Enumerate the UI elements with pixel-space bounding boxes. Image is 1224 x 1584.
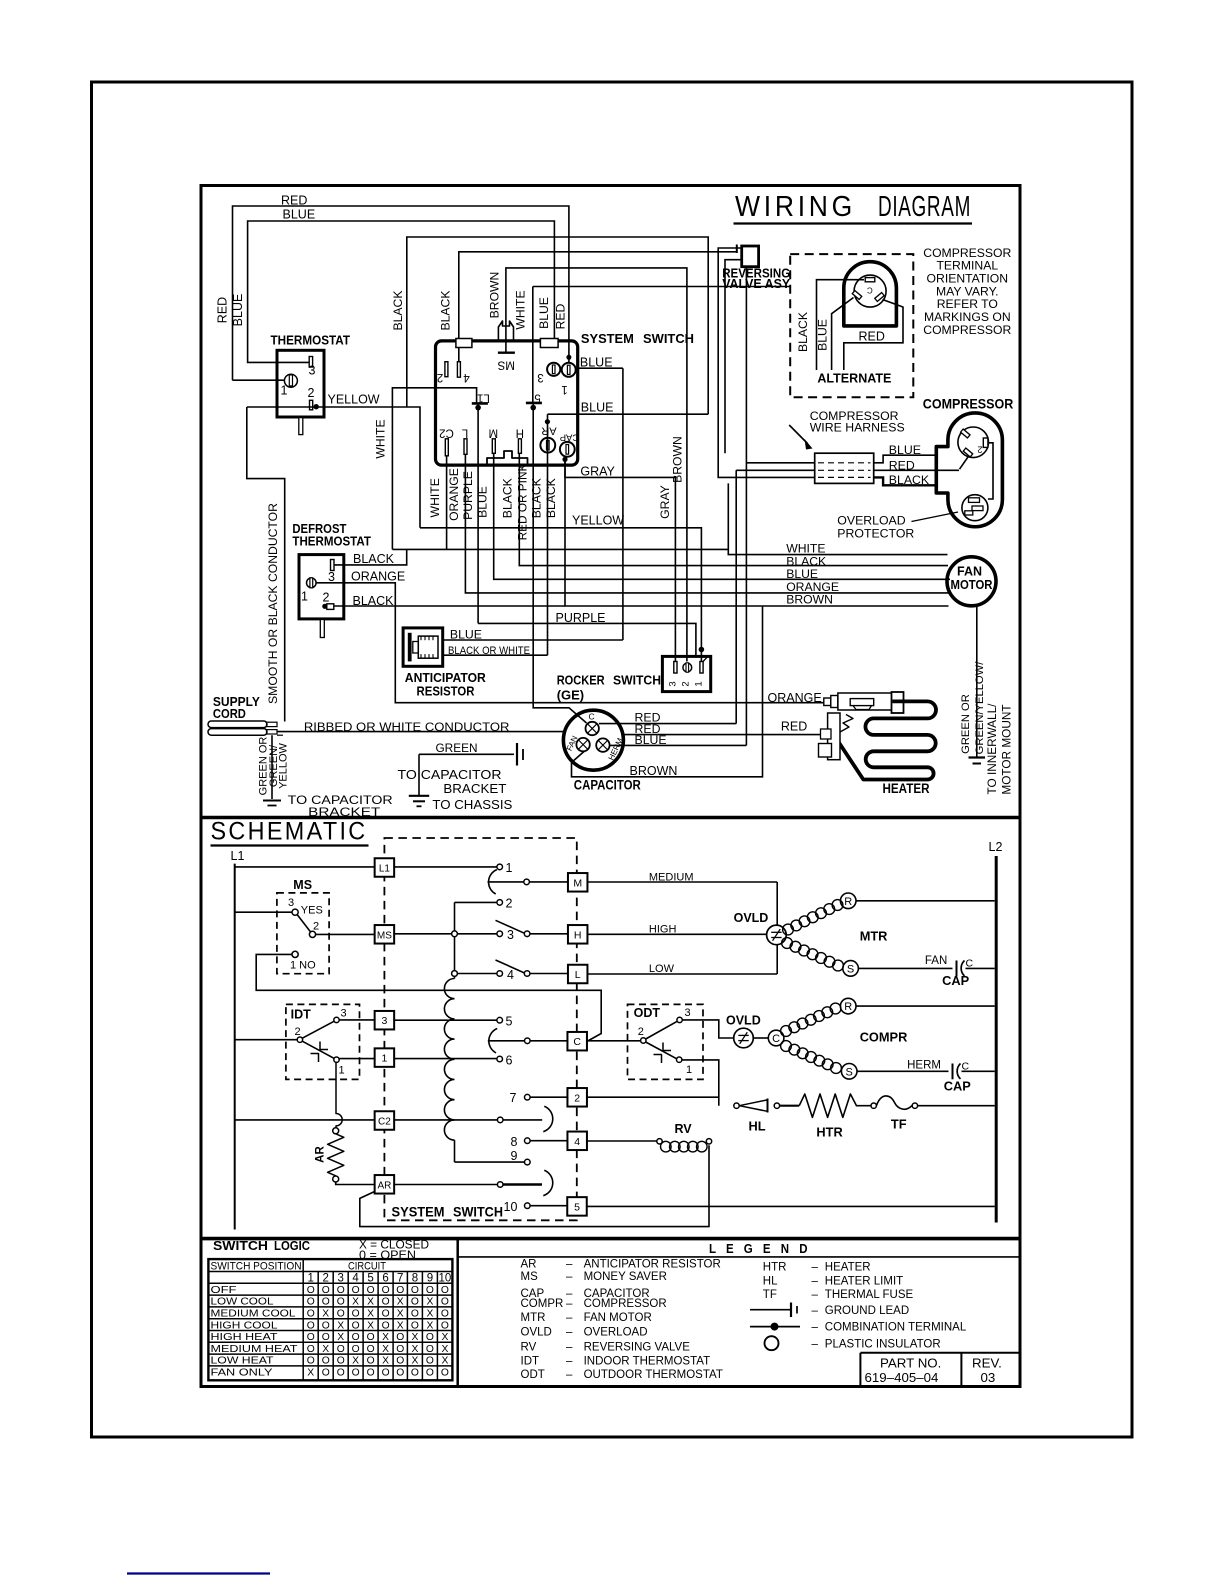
- svg-text:OUTDOOR THERMOSTAT: OUTDOOR THERMOSTAT: [584, 1369, 723, 1381]
- svg-text:3: 3: [668, 681, 679, 686]
- defrost ORANGE wire to heater: [316, 583, 824, 703]
- overload circle: [962, 495, 988, 521]
- svg-text:HL: HL: [749, 1119, 766, 1134]
- svg-text:MEDIUM: MEDIUM: [649, 871, 694, 883]
- svg-text:O: O: [352, 1309, 360, 1320]
- svg-text:HERM: HERM: [907, 1059, 941, 1071]
- svg-text:HL: HL: [763, 1276, 778, 1288]
- svg-text:O: O: [322, 1356, 330, 1367]
- svg-text:X: X: [411, 1356, 418, 1367]
- wire smooth/black conductor: [247, 407, 285, 722]
- wire BLACK to tab1: [459, 252, 737, 377]
- wire WHITE to terminal 5: [532, 287, 534, 403]
- svg-text:PURPLE: PURPLE: [556, 611, 606, 625]
- svg-text:OVERLOAD: OVERLOAD: [584, 1326, 648, 1338]
- svg-text:C: C: [573, 1036, 581, 1048]
- svg-text:4: 4: [352, 1273, 359, 1285]
- capacitor RED wire 1: [599, 723, 736, 725]
- svg-text:O: O: [337, 1368, 345, 1379]
- wiring/schematic divider: [201, 816, 1020, 820]
- svg-text:WIRING: WIRING: [735, 191, 856, 223]
- svg-text:M: M: [573, 877, 582, 889]
- wire C2 WHITE to fan: [446, 456, 448, 550]
- wire YELLOW thermostat pin2: [247, 407, 420, 528]
- harness arrow: [789, 425, 807, 444]
- svg-text:–: –: [566, 1298, 573, 1310]
- svg-text:O: O: [382, 1297, 390, 1308]
- svg-text:O: O: [322, 1297, 330, 1308]
- svg-text:X: X: [337, 1332, 344, 1343]
- wire BLUE thermostat to system switch tab: [248, 221, 555, 362]
- wire AR box to RV coil: [360, 1145, 709, 1226]
- wire BROWN top connector to rocker: [506, 268, 687, 662]
- ODT blades: [646, 1021, 678, 1039]
- rocker pin 2: [683, 663, 692, 672]
- wire L1 box to contact 1: [394, 866, 497, 868]
- svg-text:X: X: [441, 1332, 448, 1343]
- wire S to FAN CAP: [858, 967, 952, 969]
- svg-text:O: O: [396, 1368, 404, 1379]
- svg-text:1: 1: [686, 1064, 692, 1076]
- HERM CAP symbol: [952, 1064, 954, 1080]
- compressor wire harness box: [815, 453, 874, 483]
- wire box 3 to contact 5: [394, 1019, 497, 1021]
- svg-text:–: –: [566, 1259, 573, 1271]
- svg-text:SCHEMATIC: SCHEMATIC: [211, 818, 368, 846]
- svg-text:WHITE: WHITE: [428, 478, 442, 517]
- svg-text:HTR: HTR: [763, 1261, 787, 1273]
- svg-text:4: 4: [463, 371, 470, 383]
- svg-text:2: 2: [574, 1092, 580, 1104]
- IDT step symbol: [320, 1042, 328, 1050]
- wire common to M box: [488, 881, 524, 883]
- wire ODT3-OVLD2: [734, 1028, 754, 1048]
- svg-text:RED: RED: [859, 330, 885, 344]
- blue footer line: [127, 1572, 270, 1574]
- wire L ORANGE to fan: [465, 454, 950, 593]
- svg-text:O: O: [426, 1344, 434, 1355]
- svg-text:BLACK: BLACK: [439, 291, 453, 331]
- svg-text:L: L: [461, 427, 468, 439]
- contact 5: [497, 1017, 503, 1023]
- svg-text:X: X: [367, 1297, 374, 1308]
- svg-text:AR: AR: [315, 1146, 327, 1163]
- svg-text:COMPR: COMPR: [860, 1030, 908, 1045]
- svg-text:(GE): (GE): [557, 687, 584, 702]
- svg-text:X: X: [322, 1344, 329, 1355]
- heater red terminal: [828, 713, 840, 760]
- wire RV to harness BLUE and HERM riser: [745, 267, 747, 746]
- svg-text:2: 2: [638, 1026, 644, 1038]
- svg-text:BLACK: BLACK: [391, 291, 405, 331]
- svg-text:7: 7: [397, 1273, 403, 1285]
- svg-text:O: O: [307, 1285, 315, 1296]
- wire YELLOW to rocker 1: [420, 528, 701, 662]
- svg-text:O: O: [337, 1344, 345, 1355]
- alternate dashed box: [790, 254, 913, 397]
- svg-text:X: X: [426, 1309, 433, 1320]
- terminal box 5: [567, 1197, 587, 1216]
- terminal box AR: [375, 1175, 395, 1194]
- svg-text:3: 3: [685, 1007, 691, 1019]
- svg-text:1: 1: [381, 1053, 387, 1065]
- wire BLACK reversing valve branch: [407, 237, 708, 414]
- svg-text:LOGIC: LOGIC: [274, 1238, 311, 1253]
- svg-text:O: O: [307, 1344, 315, 1355]
- svg-text:S: S: [846, 1066, 853, 1078]
- svg-text:COMPRESSOR: COMPRESSOR: [923, 396, 1014, 411]
- rocker pin 1: [700, 662, 703, 674]
- svg-text:PURPLE: PURPLE: [461, 471, 475, 520]
- svg-text:COMPRESSOR: COMPRESSOR: [923, 323, 1011, 337]
- svg-text:O: O: [396, 1332, 404, 1343]
- cord ground wire: [271, 735, 273, 799]
- svg-text:MEDIUM HEAT: MEDIUM HEAT: [211, 1344, 299, 1355]
- svg-text:2: 2: [977, 445, 982, 455]
- svg-text:O: O: [337, 1356, 345, 1367]
- svg-text:BLUE: BLUE: [581, 401, 614, 415]
- bottom tab bump: [487, 451, 528, 464]
- svg-text:GREEN/YELLOW/: GREEN/YELLOW/: [974, 661, 986, 755]
- svg-text:3: 3: [337, 1273, 343, 1285]
- svg-text:RESISTOR: RESISTOR: [417, 684, 476, 699]
- compressor outline: [936, 413, 1002, 527]
- svg-text:SYSTEM: SYSTEM: [581, 331, 634, 346]
- svg-text:O: O: [352, 1285, 360, 1296]
- svg-text:3: 3: [328, 570, 335, 584]
- capacitor BLUE wire: [610, 744, 747, 746]
- svg-text:619–405–04: 619–405–04: [865, 1370, 939, 1385]
- MTR R terminal: [840, 893, 856, 909]
- svg-text:X: X: [397, 1297, 404, 1308]
- svg-text:WIRE HARNESS: WIRE HARNESS: [810, 421, 905, 435]
- svg-text:–: –: [812, 1276, 819, 1288]
- svg-text:O: O: [322, 1332, 330, 1343]
- fan ground wire: [976, 606, 978, 757]
- COMPR C terminal: [768, 1030, 784, 1046]
- defrost pin 3: [331, 560, 335, 571]
- svg-text:O: O: [411, 1320, 419, 1331]
- svg-text:2: 2: [308, 386, 315, 400]
- svg-text:CAP: CAP: [560, 432, 580, 443]
- MS switch dashed box: [277, 893, 329, 974]
- MTR S winding: [782, 938, 793, 949]
- COMPR R winding: [781, 1026, 792, 1037]
- wire R to L2: [856, 900, 995, 902]
- svg-text:MONEY SAVER: MONEY SAVER: [584, 1271, 667, 1283]
- wire WHITE riser: [392, 388, 476, 550]
- ODT contact 1: [677, 1057, 682, 1062]
- svg-text:5: 5: [506, 1014, 513, 1028]
- svg-text:O: O: [382, 1285, 390, 1296]
- wire HIGH: [587, 933, 766, 935]
- svg-text:X: X: [411, 1332, 418, 1343]
- wire box 5 to L2: [587, 1205, 995, 1207]
- svg-text:BLUE: BLUE: [635, 733, 667, 747]
- svg-text:6: 6: [506, 1054, 513, 1068]
- svg-text:O: O: [382, 1368, 390, 1379]
- wire BLUE switch-1 right: [576, 367, 623, 369]
- wire LOW: [587, 973, 777, 975]
- svg-text:–: –: [566, 1326, 573, 1338]
- svg-text:GRAY: GRAY: [658, 485, 672, 519]
- alternate BLUE wire: [832, 298, 854, 371]
- svg-text:–: –: [566, 1342, 573, 1354]
- svg-text:X: X: [441, 1344, 448, 1355]
- svg-text:7: 7: [510, 1091, 517, 1105]
- svg-text:O: O: [367, 1356, 375, 1367]
- svg-text:C2: C2: [378, 1117, 391, 1128]
- svg-text:MOTOR: MOTOR: [951, 578, 993, 592]
- svg-text:M: M: [489, 427, 499, 439]
- svg-text:HIGH: HIGH: [649, 923, 677, 935]
- svg-text:CAP: CAP: [944, 1079, 971, 1094]
- svg-text:SMOOTH OR BLACK CONDUCTOR: SMOOTH OR BLACK CONDUCTOR: [266, 503, 280, 704]
- alternate C terminal: [865, 278, 875, 282]
- terminal box 2: [567, 1088, 587, 1107]
- wire S2 to HERM CAP: [857, 1070, 949, 1072]
- wire BROWN fan line: [565, 459, 949, 606]
- svg-text:O: O: [337, 1285, 345, 1296]
- svg-text:SYSTEM: SYSTEM: [392, 1204, 445, 1220]
- svg-text:–: –: [812, 1289, 819, 1301]
- svg-text:BLACK: BLACK: [353, 552, 395, 566]
- wire H BLACK to fan: [519, 453, 948, 565]
- fan motor circle: [947, 557, 996, 606]
- switch screw 1: [562, 363, 576, 377]
- svg-text:2: 2: [313, 921, 319, 933]
- MTR S terminal: [843, 961, 859, 977]
- svg-text:O: O: [352, 1368, 360, 1379]
- system switch dashed box: [384, 838, 576, 1220]
- cord ground symbol: [263, 800, 281, 802]
- svg-text:O: O: [307, 1356, 315, 1367]
- HL to HTR wire: [780, 1105, 800, 1107]
- svg-text:3: 3: [537, 371, 543, 383]
- contact 3: [497, 931, 503, 937]
- svg-text:1: 1: [561, 383, 567, 395]
- terminal box 4: [567, 1132, 587, 1151]
- svg-text:O: O: [396, 1285, 404, 1296]
- svg-text:S: S: [847, 963, 854, 975]
- svg-text:L E G E N D: L E G E N D: [709, 1241, 811, 1256]
- thermostat pin 3: [309, 357, 312, 368]
- svg-text:YELLOW: YELLOW: [572, 513, 624, 527]
- svg-text:OVLD: OVLD: [521, 1326, 552, 1338]
- legend ground lead symbol: [750, 1309, 791, 1311]
- svg-text:FAN: FAN: [925, 955, 947, 967]
- svg-text:X: X: [337, 1320, 344, 1331]
- svg-text:H: H: [516, 427, 524, 439]
- svg-text:X: X: [307, 1368, 314, 1379]
- svg-text:REVERSING VALVE: REVERSING VALVE: [584, 1342, 691, 1354]
- defrost pin 1: [307, 578, 317, 588]
- svg-text:LOW: LOW: [649, 963, 675, 975]
- svg-text:O: O: [411, 1285, 419, 1296]
- wire IDT1 down to AR resistor: [336, 1062, 342, 1128]
- wire OVLD2 to C: [753, 1037, 768, 1039]
- AR wiper arc: [543, 1170, 552, 1195]
- svg-text:X: X: [367, 1309, 374, 1320]
- svg-text:TO CHASSIS: TO CHASSIS: [432, 798, 512, 812]
- tab 2: [540, 339, 558, 348]
- svg-text:O: O: [367, 1285, 375, 1296]
- alternate RED wire: [844, 300, 903, 371]
- svg-text:1 NO: 1 NO: [290, 960, 316, 972]
- rocker switch box: [662, 656, 710, 691]
- svg-text:3: 3: [341, 1008, 347, 1020]
- svg-text:5: 5: [574, 1201, 580, 1213]
- svg-text:MS: MS: [497, 359, 515, 371]
- thermostat box: [277, 350, 324, 417]
- svg-text:–: –: [566, 1271, 573, 1283]
- compressor terminal circle: [958, 427, 989, 458]
- IDT contact 1: [334, 1057, 339, 1062]
- svg-text:L2: L2: [989, 840, 1003, 854]
- alternate R spade: [875, 293, 884, 302]
- svg-text:C: C: [589, 712, 595, 722]
- wire RED thermostat to system switch: [233, 206, 569, 380]
- svg-text:MTR: MTR: [521, 1312, 546, 1324]
- supply cord: [208, 721, 267, 728]
- svg-text:X: X: [411, 1344, 418, 1355]
- svg-text:–: –: [566, 1312, 573, 1324]
- svg-text:PLASTIC INSULATOR: PLASTIC INSULATOR: [825, 1339, 941, 1351]
- svg-text:RED: RED: [889, 459, 915, 473]
- svg-text:CAP: CAP: [942, 973, 969, 988]
- svg-text:DIAGRAM: DIAGRAM: [878, 191, 971, 223]
- svg-text:1: 1: [506, 861, 513, 875]
- wire MS NO to C bracket: [256, 954, 601, 1041]
- svg-text:SWITCH: SWITCH: [613, 673, 661, 688]
- capacitor circle: [563, 710, 623, 770]
- svg-text:O: O: [396, 1344, 404, 1355]
- svg-text:BLUE: BLUE: [889, 443, 921, 457]
- svg-text:L1: L1: [477, 392, 490, 404]
- wire ODT1 down: [682, 1060, 719, 1106]
- svg-text:L: L: [575, 969, 581, 981]
- terminal box MS: [375, 925, 395, 944]
- wire IDT 3 to box 3: [339, 1019, 374, 1021]
- contact 1: [497, 864, 503, 870]
- svg-text:WHITE: WHITE: [514, 290, 528, 329]
- wire IDT1 to box 1: [339, 1058, 374, 1060]
- COMPR R terminal: [840, 998, 856, 1014]
- svg-text:BLACK: BLACK: [500, 478, 514, 518]
- wire box 2 right: [587, 1096, 719, 1098]
- svg-text:C2: C2: [439, 427, 454, 439]
- terminal box 3: [375, 1011, 395, 1029]
- switch logic / legend divider: [456, 1237, 459, 1387]
- terminal box L: [568, 965, 588, 984]
- legend plastic insulator symbol: [765, 1336, 779, 1350]
- wire MS box to contact 3: [394, 933, 452, 935]
- svg-text:CAPACITOR: CAPACITOR: [574, 778, 641, 793]
- svg-text:AR: AR: [521, 1259, 537, 1271]
- svg-text:O: O: [441, 1368, 449, 1379]
- svg-text:OVLD: OVLD: [726, 1014, 761, 1028]
- terminal box H: [568, 925, 588, 944]
- heater element serpentine: [838, 701, 936, 779]
- svg-text:O: O: [367, 1344, 375, 1355]
- contact 4 junction: [452, 971, 458, 977]
- defrost BLACK wire pin3: [334, 549, 407, 565]
- COMPR S terminal: [841, 1064, 857, 1080]
- svg-text:2: 2: [295, 1026, 301, 1038]
- svg-text:YELLOW: YELLOW: [328, 392, 380, 406]
- svg-text:O: O: [382, 1309, 390, 1320]
- tab 1: [456, 339, 472, 348]
- svg-text:O: O: [337, 1309, 345, 1320]
- svg-text:O: O: [382, 1320, 390, 1331]
- svg-text:O: O: [322, 1285, 330, 1296]
- svg-text:TF: TF: [891, 1117, 907, 1132]
- svg-text:3: 3: [309, 364, 316, 378]
- svg-text:O: O: [441, 1320, 449, 1331]
- svg-text:R: R: [844, 896, 852, 908]
- svg-text:GREEN: GREEN: [436, 741, 478, 755]
- svg-text:ODT: ODT: [634, 1006, 661, 1020]
- svg-text:IDT: IDT: [291, 1007, 312, 1021]
- svg-text:HEATER: HEATER: [825, 1261, 871, 1273]
- svg-text:8: 8: [511, 1135, 518, 1149]
- svg-text:LOW COOL: LOW COOL: [211, 1297, 274, 1308]
- svg-text:L1: L1: [379, 864, 391, 875]
- svg-text:O: O: [367, 1332, 375, 1343]
- wire BLUE AR terminal: [548, 413, 709, 415]
- wire BLUE harness: [874, 455, 937, 463]
- svg-text:REV.: REV.: [972, 1356, 1002, 1371]
- C2 wiper arc: [543, 1106, 552, 1131]
- svg-text:X: X: [382, 1332, 389, 1343]
- alternate terminal circle: [854, 275, 886, 307]
- svg-text:RED: RED: [554, 303, 568, 329]
- reversing valve box: [742, 246, 759, 267]
- svg-text:O: O: [352, 1344, 360, 1355]
- MTR R winding: [783, 924, 794, 935]
- FAN CAP symbol: [956, 961, 958, 977]
- part number box: [860, 1352, 1019, 1354]
- anticipator BLACK OR WHITE wire: [443, 654, 548, 656]
- svg-text:HIGH COOL: HIGH COOL: [211, 1320, 278, 1331]
- thermostat pin 1: [284, 374, 297, 387]
- terminal box L1: [375, 858, 395, 877]
- svg-text:BLUE: BLUE: [450, 628, 482, 642]
- svg-text:2: 2: [681, 681, 692, 686]
- svg-text:ANTICIPATOR RESISTOR: ANTICIPATOR RESISTOR: [584, 1259, 721, 1271]
- svg-text:O: O: [352, 1320, 360, 1331]
- rocker pin 3: [674, 662, 677, 674]
- contact 1 wiper arc: [489, 870, 497, 894]
- alternate BLACK wire: [817, 280, 865, 370]
- wire common to C box: [488, 1040, 525, 1042]
- svg-text:FAN MOTOR: FAN MOTOR: [584, 1312, 652, 1324]
- svg-text:3: 3: [288, 897, 294, 909]
- svg-text:O: O: [426, 1368, 434, 1379]
- svg-text:MOTOR MOUNT: MOTOR MOUNT: [999, 704, 1013, 794]
- TF thermal fuse: [871, 1103, 876, 1108]
- svg-text:SWITCH: SWITCH: [453, 1204, 503, 1220]
- svg-text:FAN ONLY: FAN ONLY: [211, 1368, 273, 1379]
- green ground lead symbol: [516, 743, 518, 766]
- capacitor HERM screw: [596, 738, 609, 751]
- svg-text:O: O: [426, 1332, 434, 1343]
- svg-text:5: 5: [367, 1273, 373, 1285]
- svg-text:HIGH HEAT: HIGH HEAT: [211, 1332, 279, 1343]
- alternate arch: [844, 262, 897, 326]
- chassis ground wire: [418, 754, 420, 796]
- svg-text:ROCKER: ROCKER: [557, 673, 606, 688]
